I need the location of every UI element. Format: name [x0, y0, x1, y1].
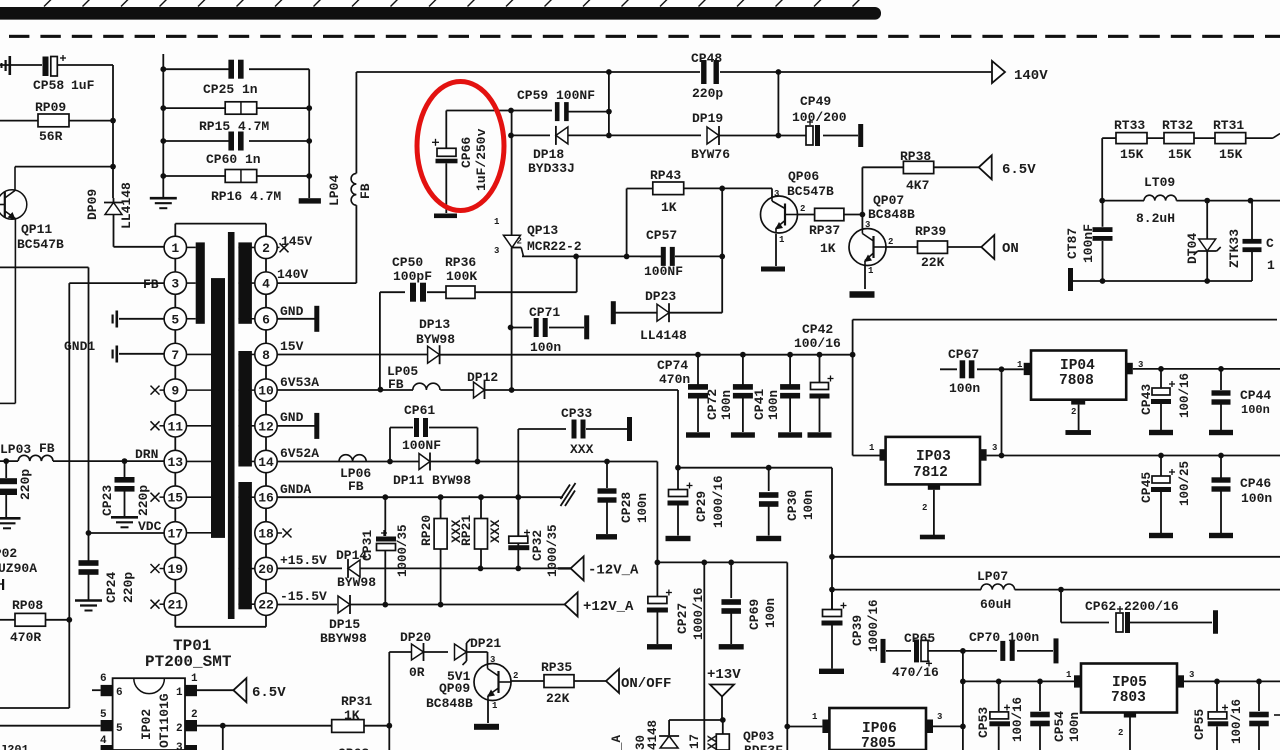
svg-text:BC547B: BC547B: [787, 184, 834, 199]
resistor RP35 22K: [511, 660, 606, 706]
net flag 6.5V (RP38): [979, 155, 1037, 179]
wire mid rail right: [832, 556, 1280, 558]
node rail left of CP25 ladder: [162, 54, 164, 176]
regulator IP03 7812: [869, 437, 997, 535]
nc mark pin 2 and label 145V: [277, 234, 312, 252]
wire CT87 ground rail: [1073, 278, 1252, 284]
svg-text:CP55: CP55: [1192, 709, 1207, 740]
svg-text:UZ90A: UZ90A: [0, 561, 37, 576]
terminator bar IP03 gnd: [920, 535, 945, 540]
wire -15.5V rail (pin22): [277, 604, 337, 606]
terminator bar under CP69: [719, 644, 744, 649]
inductor LT09 8.2uH: [1099, 175, 1280, 226]
resistor RP39 22K: [886, 224, 981, 270]
terminator bar right of CP70: [1054, 638, 1059, 663]
svg-text:CP24: CP24: [104, 572, 119, 603]
svg-text:QP09: QP09: [439, 681, 470, 696]
svg-text:CP44: CP44: [1240, 388, 1271, 403]
svg-text:5: 5: [116, 723, 123, 735]
svg-text:10: 10: [258, 384, 274, 399]
svg-text:RP08: RP08: [12, 598, 43, 613]
svg-text:6V53A: 6V53A: [280, 375, 319, 390]
svg-text:7812: 7812: [913, 465, 948, 481]
wire +15.5V rail (pin20): [277, 567, 342, 569]
transformer pin 7: [164, 343, 186, 365]
nc mark pin 15: [151, 493, 165, 502]
svg-text:+15.5V: +15.5V: [280, 553, 327, 568]
wire RT33 riser: [1101, 138, 1103, 201]
transistor QP03 (edge): [610, 729, 783, 750]
terminator bar pin6: [314, 306, 319, 332]
label -15.5V (pin22): [280, 589, 327, 604]
svg-text:BC547B: BC547B: [17, 237, 64, 252]
svg-text:CP61: CP61: [404, 403, 435, 418]
svg-text:220p: 220p: [18, 469, 33, 500]
svg-text:BYW98: BYW98: [416, 332, 455, 347]
inductor LP04 FB: [327, 72, 373, 283]
capacitor CP49 100/200: [778, 94, 858, 146]
svg-text:2: 2: [517, 237, 522, 247]
svg-text:1: 1: [171, 241, 179, 256]
wire QP03 riser: [703, 562, 705, 750]
svg-text:1: 1: [869, 443, 875, 453]
svg-text:QP13: QP13: [527, 223, 558, 238]
svg-text:CP43: CP43: [1139, 384, 1154, 415]
terminator bar under CP46: [1209, 533, 1233, 538]
svg-text:QP06: QP06: [788, 169, 819, 184]
svg-text:DP15: DP15: [329, 617, 360, 632]
svg-text:RT33: RT33: [1114, 118, 1145, 133]
inductor LP05: [413, 383, 440, 390]
svg-text:FB: FB: [39, 441, 55, 456]
wire 15V rail to caps bus: [440, 352, 853, 358]
svg-text:100n: 100n: [720, 390, 734, 420]
red highlight ellipse: [417, 82, 504, 211]
svg-text:3: 3: [992, 443, 997, 453]
svg-text:IP06: IP06: [862, 721, 897, 737]
svg-text:CP59 100NF: CP59 100NF: [517, 88, 595, 103]
capacitor CP25: [160, 60, 309, 97]
svg-text:3: 3: [1189, 670, 1194, 680]
svg-text:LP07: LP07: [977, 569, 1008, 584]
capacitor CP31 1000/35: [360, 497, 410, 605]
svg-text:CP45: CP45: [1139, 472, 1154, 503]
svg-text:3: 3: [171, 277, 179, 292]
svg-text:RP21: RP21: [459, 515, 474, 546]
net flag ON: [981, 235, 1019, 259]
svg-text:17: 17: [167, 526, 183, 541]
svg-text:CP69: CP69: [747, 599, 762, 630]
svg-text:60uH: 60uH: [980, 597, 1011, 612]
transformer pin 13: [164, 450, 186, 472]
resistor (bottom, XX): [688, 720, 729, 750]
terminator bar right of CP62: [1213, 610, 1218, 634]
wire 6V53A to CP29 rail: [512, 390, 678, 468]
zener DT04 ZTK33: [1185, 201, 1242, 281]
svg-text:1: 1: [1017, 360, 1023, 370]
svg-text:MCR22-2: MCR22-2: [527, 239, 582, 254]
svg-text:DP18: DP18: [533, 147, 564, 162]
svg-text:1000/16: 1000/16: [712, 475, 726, 528]
resistor RT33 15K: [1102, 118, 1147, 162]
svg-text:1: 1: [779, 235, 785, 245]
svg-text:11: 11: [167, 419, 183, 434]
label GNDA (pin16): [280, 482, 311, 497]
ground (left edge cap): [0, 518, 21, 528]
label 140V (pin4): [277, 267, 356, 283]
net flag 6.5V (IP02): [233, 678, 286, 702]
ground bar QP07 (thick): [850, 291, 875, 298]
wire CP33 riser to -12V rail: [515, 429, 521, 571]
svg-text:100n: 100n: [949, 381, 980, 396]
svg-text:17: 17: [688, 734, 702, 749]
wire 15V rail (pin8): [277, 354, 428, 356]
svg-text:QP07: QP07: [873, 193, 904, 208]
svg-text:100nF: 100nF: [1081, 224, 1096, 263]
capacitor CP66 1uF/250v: [432, 111, 489, 214]
svg-text:CP50: CP50: [392, 255, 423, 270]
svg-text:220p: 220p: [692, 86, 723, 101]
svg-text:1uF/250v: 1uF/250v: [474, 128, 489, 191]
transistor QP09 BC848B: [426, 655, 511, 723]
svg-text:8: 8: [262, 348, 270, 363]
wire CP48 node down: [777, 72, 779, 136]
svg-text:CP23: CP23: [100, 485, 115, 516]
terminator bar left of CP65: [881, 639, 886, 663]
svg-text:CP53: CP53: [976, 707, 991, 738]
label VDC (pin17): [138, 519, 162, 534]
terminator bar under CP41: [778, 432, 802, 437]
wire CP67 to IP04: [1002, 368, 1024, 370]
wire QP11 collector to rail: [15, 164, 116, 198]
terminator bar under CP66: [434, 214, 457, 219]
svg-text:2: 2: [191, 709, 198, 721]
net flag 140V: [992, 61, 1048, 84]
transformer pin 3: [164, 272, 186, 294]
svg-text:CP71: CP71: [529, 305, 560, 320]
transformer pin 19: [164, 557, 186, 579]
wire +13V node left: [669, 720, 723, 735]
terminator bar right of CP71: [584, 315, 589, 339]
svg-text:1K: 1K: [820, 241, 836, 256]
terminator bar under CP39: [819, 669, 844, 674]
svg-text:-15.5V: -15.5V: [280, 589, 327, 604]
capacitor CP55 100/16: [1192, 681, 1244, 750]
wire IP05 output: [1184, 679, 1280, 685]
svg-text:RP37: RP37: [809, 223, 840, 238]
svg-text:BC848B: BC848B: [868, 207, 915, 222]
svg-text:7: 7: [171, 348, 179, 363]
svg-text:6.5V: 6.5V: [252, 685, 286, 701]
svg-text:CP66: CP66: [459, 137, 474, 168]
earth ground (GNDA): [561, 483, 576, 506]
svg-text:470n: 470n: [659, 372, 690, 387]
net flag +12V_A: [565, 592, 634, 616]
resistor RP15: [160, 102, 312, 134]
svg-text:0R: 0R: [409, 665, 425, 680]
label 6V53A (pin10): [280, 375, 319, 390]
svg-text:XXX: XXX: [488, 519, 503, 543]
nc mark pin 19: [151, 564, 165, 573]
transformer pin 16: [255, 486, 277, 508]
wire CP66 to CP59 node: [446, 108, 552, 114]
svg-text:5: 5: [171, 312, 179, 327]
svg-text:DRN: DRN: [135, 447, 158, 462]
svg-text:_A: _A: [610, 734, 624, 750]
svg-text:100n: 100n: [530, 340, 561, 355]
svg-text:1: 1: [176, 687, 183, 699]
diode DP19 BYW76: [691, 111, 781, 162]
svg-text:CP27: CP27: [675, 603, 690, 634]
svg-text:DP19: DP19: [692, 111, 723, 126]
label TP01: [173, 637, 211, 655]
wire IP05 input bus: [963, 679, 1074, 685]
resistor RP16: [160, 170, 312, 205]
terminator bar under CP72: [731, 432, 755, 437]
svg-text:FB: FB: [348, 479, 364, 494]
nc mark pin 21: [151, 600, 165, 609]
svg-text:1uF: 1uF: [71, 78, 95, 93]
svg-text:FB: FB: [143, 277, 159, 292]
svg-text:ON: ON: [1002, 241, 1019, 257]
transformer pin 5: [164, 308, 186, 330]
svg-text:145V: 145V: [281, 234, 312, 249]
svg-text:14: 14: [258, 455, 274, 470]
capacitor CP65 470/16: [886, 631, 966, 680]
transformer pin 6: [255, 308, 277, 330]
svg-text:CP32: CP32: [530, 530, 545, 561]
svg-text:FB: FB: [358, 183, 373, 199]
svg-text:DP21: DP21: [470, 636, 501, 651]
svg-text:100n: 100n: [1068, 712, 1082, 742]
capacitor CP46 100n: [1212, 456, 1273, 534]
transformer right pin chain: [265, 259, 267, 593]
svg-text:IP02: IP02: [139, 709, 154, 740]
svg-text:ON/OFF: ON/OFF: [621, 676, 671, 692]
nc mark pin 9: [151, 386, 165, 395]
svg-text:DP12: DP12: [467, 370, 498, 385]
winding bar right lower: [238, 482, 254, 609]
svg-text:100/16: 100/16: [1230, 699, 1244, 744]
transformer pin 11: [164, 415, 186, 437]
terminator bar under CP27: [647, 644, 672, 649]
ground bar QP09: [474, 724, 499, 730]
wire bus corner up: [850, 320, 1277, 358]
svg-text:CP46: CP46: [1240, 476, 1271, 491]
svg-text:BYD33J: BYD33J: [528, 161, 575, 176]
svg-text:LP03: LP03: [0, 442, 31, 457]
winding bar right middle: [238, 351, 254, 467]
transistor QP02 (edge): [0, 546, 37, 590]
svg-text:22K: 22K: [921, 255, 945, 270]
transformer TP01 bottom connector: [175, 616, 266, 627]
svg-text:ZTK33: ZTK33: [1227, 229, 1242, 268]
wire +12V rail: [350, 602, 565, 608]
resistor RP21 XXX: [459, 497, 503, 568]
svg-text:XXX: XXX: [570, 442, 594, 457]
transformer pin 12: [255, 415, 277, 437]
wire IP02 pin1 to 6.5V: [197, 689, 233, 691]
wire RP43 riser: [626, 189, 628, 257]
capacitor CP28 100n: [598, 462, 651, 535]
svg-text:CP58: CP58: [33, 78, 64, 93]
svg-text:100pF: 100pF: [393, 269, 432, 284]
nc mark pin 11: [151, 421, 165, 430]
svg-text:7803: 7803: [1111, 690, 1146, 706]
svg-text:RT32: RT32: [1162, 118, 1193, 133]
wire VDC to pin17: [86, 530, 164, 536]
diode DP18 BYD33J: [508, 126, 612, 176]
transistor QP11 BC547B: [0, 167, 64, 404]
capacitor CP23 220p: [100, 461, 151, 517]
capacitor CP59 100NF: [517, 88, 612, 121]
capacitor CP41 100n: [752, 355, 800, 432]
diode (bottom, LL4148): [634, 720, 679, 750]
capacitor CP39 1000/16: [822, 590, 882, 669]
capacitor CP70 100n: [963, 630, 1053, 661]
thyristor QP13 MCR22-2: [494, 111, 582, 257]
diode DP11 BYW98: [393, 453, 607, 489]
svg-text:IP04: IP04: [1060, 358, 1095, 374]
svg-text:DP13: DP13: [419, 317, 450, 332]
svg-text:100n: 100n: [636, 493, 650, 523]
transformer pin 2: [255, 236, 277, 258]
wire IP04 output: [1133, 366, 1280, 372]
capacitor CP60: [160, 132, 312, 168]
ground (CP24): [75, 601, 102, 611]
svg-text:IP03: IP03: [916, 449, 951, 465]
svg-text:15K: 15K: [1168, 147, 1192, 162]
label CP63 (edge): [338, 746, 369, 750]
label +15.5V (pin20): [280, 553, 327, 568]
svg-text:CP33: CP33: [561, 406, 592, 421]
node rail RP43-CP57-DP23: [719, 186, 725, 313]
svg-text:4148: 4148: [646, 720, 660, 750]
svg-text:CP30: CP30: [785, 490, 800, 521]
terminator bar under CP42: [808, 432, 832, 437]
node rail right of CP59: [606, 69, 612, 135]
capacitor CP62 2200/16: [1061, 590, 1212, 633]
svg-text:15K: 15K: [1219, 147, 1243, 162]
capacitor CT87 100nF: [1065, 201, 1113, 281]
svg-text:GNDA: GNDA: [280, 482, 311, 497]
svg-text:BYW98: BYW98: [337, 575, 376, 590]
capacitor CP29 1000/16: [668, 468, 727, 536]
svg-text:CP62 2200/16: CP62 2200/16: [1085, 599, 1179, 614]
capacitor CP72 100n: [705, 355, 753, 432]
svg-text:LL4148: LL4148: [119, 182, 134, 229]
label J201 (edge): [0, 743, 29, 750]
transformer pin 17: [164, 522, 186, 544]
inductor LP03 FB: [0, 441, 164, 464]
svg-text:CT87: CT87: [1065, 228, 1080, 259]
wire 6V53A rail (pin10): [277, 387, 413, 393]
svg-text:30: 30: [634, 735, 648, 750]
svg-text:CP28: CP28: [619, 492, 634, 523]
svg-text:9: 9: [171, 384, 179, 399]
svg-text:3: 3: [494, 246, 499, 256]
svg-text:RP39: RP39: [915, 224, 946, 239]
svg-text:1: 1: [191, 673, 198, 685]
svg-text:CP67: CP67: [948, 347, 979, 362]
resistor RP38 4K7: [862, 149, 978, 193]
capacitor CP58: [33, 55, 113, 121]
svg-text:22: 22: [258, 598, 274, 613]
svg-text:4K7: 4K7: [906, 178, 929, 193]
label FB (pin3): [69, 277, 164, 292]
wire CP27 rail: [655, 560, 788, 566]
svg-text:1: 1: [1066, 670, 1072, 680]
terminator bar under CP44: [1209, 430, 1233, 435]
capacitor CP27 1000/16: [647, 562, 706, 644]
wire (left) to VDC riser: [0, 267, 89, 533]
svg-text:CP54: CP54: [1052, 711, 1067, 742]
transformer left pin chain: [174, 259, 176, 593]
svg-text:DP23: DP23: [645, 289, 676, 304]
svg-text:LL4148: LL4148: [640, 328, 687, 343]
capacitor 220p (left edge): [0, 461, 33, 518]
svg-text:OT1101G: OT1101G: [157, 693, 172, 748]
svg-text:13: 13: [167, 455, 183, 470]
resistor RT31 15K: [1194, 118, 1280, 162]
transistor QP07 BC848B: [849, 167, 915, 289]
wire CP65 riser to IP05 bus: [960, 651, 966, 750]
label GND (pin12): [277, 410, 315, 426]
svg-text:CP39: CP39: [850, 615, 865, 646]
svg-text:100K: 100K: [446, 269, 477, 284]
wire DP18 to DP19: [609, 134, 701, 136]
wire 140V top rail: [356, 71, 700, 73]
label DRN (pin13): [135, 447, 158, 462]
svg-text:1: 1: [812, 712, 818, 722]
svg-text:RP16 4.7M: RP16 4.7M: [211, 189, 281, 204]
svg-text:100/25: 100/25: [1178, 461, 1192, 506]
terminator bar (CT87 gnd rail): [1068, 268, 1073, 291]
svg-text:BBYW98: BBYW98: [320, 631, 367, 646]
net flag ON/OFF (RP35): [606, 669, 671, 693]
capacitor CP56 100n (edge): [1249, 681, 1280, 750]
svg-text:4: 4: [100, 735, 107, 747]
svg-text:56R: 56R: [39, 129, 63, 144]
label LP05 FB: [387, 364, 418, 392]
transformer pin 10: [255, 379, 277, 401]
diode DP23 LL4148: [615, 289, 722, 343]
wire CP30 rail down: [829, 468, 835, 612]
diode DP20 0R: [400, 630, 448, 680]
diode DP21 5V1: [447, 636, 501, 684]
svg-text:RP35: RP35: [541, 660, 572, 675]
resistor RP31 1K: [332, 694, 392, 750]
ground (CP25 ladder): [150, 176, 177, 208]
svg-text:100/16: 100/16: [1011, 697, 1025, 742]
capacitor CP53 100/16: [976, 681, 1025, 750]
svg-text:BC848B: BC848B: [426, 696, 473, 711]
capacitor CP74 470n: [657, 355, 708, 432]
wire -12V rail: [360, 566, 571, 572]
svg-text:100n: 100n: [1241, 403, 1270, 417]
terminator bar under CP45: [1149, 533, 1173, 538]
transformer pin 18: [255, 522, 277, 544]
svg-text:RP20: RP20: [419, 515, 434, 546]
svg-text:6V52A: 6V52A: [280, 446, 319, 461]
diode DP14 BYW98: [336, 548, 376, 590]
svg-text:220p: 220p: [121, 572, 136, 603]
svg-text:GND: GND: [280, 410, 304, 425]
net flag -12V_A: [571, 556, 639, 580]
page border bar: [0, 7, 881, 20]
resistor RT32 15K: [1147, 118, 1194, 162]
transistor QP06 BC547B: [761, 169, 835, 266]
